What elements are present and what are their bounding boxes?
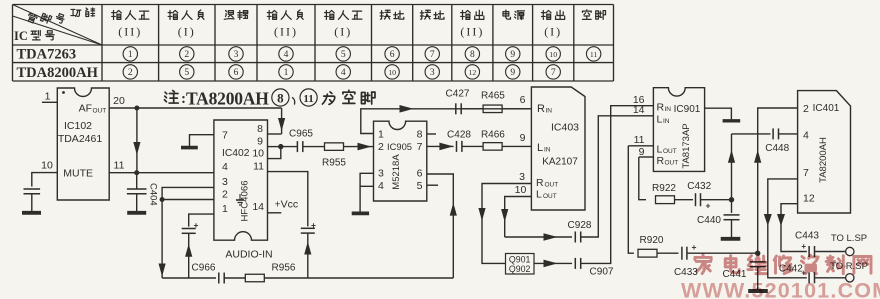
svg-text:TDA8200AH: TDA8200AH <box>17 65 99 81</box>
capacitor C907 <box>574 258 576 269</box>
svg-text:TO L.SP: TO L.SP <box>831 233 867 244</box>
table column headers <box>112 10 122 19</box>
svg-text:TDA2461: TDA2461 <box>58 133 103 145</box>
svg-text:7: 7 <box>417 141 423 153</box>
svg-text:5: 5 <box>341 50 346 60</box>
IC905 M5218A <box>374 121 427 201</box>
svg-text:IN: IN <box>544 147 551 154</box>
svg-text:11: 11 <box>590 50 598 59</box>
svg-text:R956: R956 <box>272 263 296 274</box>
svg-text:C440: C440 <box>697 215 721 226</box>
capacitor (pin10) <box>24 188 41 190</box>
svg-text:+Vcc: +Vcc <box>275 199 299 211</box>
node C432 junction <box>729 197 734 202</box>
svg-text:L: L <box>657 114 663 126</box>
svg-text:WWW.520101.COM: WWW.520101.COM <box>681 279 880 299</box>
svg-text:1: 1 <box>284 68 289 78</box>
svg-text:C427: C427 <box>446 89 470 100</box>
svg-text:6: 6 <box>417 167 423 179</box>
ground <box>22 211 41 215</box>
svg-text:4: 4 <box>222 161 228 173</box>
svg-text:2: 2 <box>128 68 133 78</box>
svg-text:IC901: IC901 <box>674 104 701 115</box>
svg-text:8: 8 <box>470 50 475 60</box>
wire C928 up to IC901 pin14 <box>581 116 654 237</box>
svg-text:MUTE: MUTE <box>63 168 93 180</box>
svg-text:L: L <box>537 142 543 154</box>
IC102 TDA2461 <box>57 88 109 200</box>
svg-text:1: 1 <box>378 128 384 140</box>
svg-text:(I): (I) <box>178 25 196 39</box>
pin 5 stub <box>427 184 438 186</box>
svg-text:R: R <box>537 103 545 115</box>
wire pin9 down to R922 <box>639 157 646 200</box>
svg-text:AF: AF <box>79 103 92 115</box>
small ground glyph inside IC402 <box>239 194 241 200</box>
svg-text:8: 8 <box>257 123 263 135</box>
svg-text:R955: R955 <box>322 158 346 169</box>
svg-text:14: 14 <box>252 201 264 213</box>
ground (C404) <box>127 211 146 215</box>
pin 12 wire to L.SP <box>781 204 807 252</box>
svg-text:IC905: IC905 <box>387 141 412 152</box>
svg-text:2: 2 <box>378 141 384 153</box>
svg-text:14: 14 <box>633 104 645 116</box>
capacitor C928 <box>574 232 576 243</box>
svg-text:8: 8 <box>277 90 284 105</box>
svg-text:11: 11 <box>114 160 125 172</box>
svg-text:C404: C404 <box>148 183 159 206</box>
capacitor C432 <box>695 193 697 206</box>
svg-text:12: 12 <box>803 193 815 205</box>
pin 1 wire + electrolytic cap <box>189 214 214 227</box>
pin 8 stub <box>427 133 436 135</box>
svg-text:AUDIO-IN: AUDIO-IN <box>225 249 272 261</box>
svg-text:+: + <box>692 242 697 252</box>
bottom feedback rail <box>162 277 216 279</box>
svg-text:TA8200AH: TA8200AH <box>186 89 269 109</box>
svg-text:7: 7 <box>222 130 228 142</box>
svg-text:4: 4 <box>378 180 384 192</box>
wire AF junction down to mute line, flow arrow <box>136 108 138 173</box>
svg-text:10: 10 <box>388 68 396 77</box>
wire pin2 riser <box>758 108 798 253</box>
svg-text:C966: C966 <box>192 263 216 274</box>
svg-text:OUT: OUT <box>543 193 557 200</box>
svg-text:3: 3 <box>519 171 525 183</box>
svg-text:2: 2 <box>222 189 228 201</box>
svg-text:C928: C928 <box>568 220 592 231</box>
svg-text:10: 10 <box>549 50 557 59</box>
pin 10 wire <box>268 147 281 159</box>
pin 9 wire + node <box>268 146 281 148</box>
svg-text:R922: R922 <box>652 183 676 194</box>
capacitor C427 <box>455 103 457 114</box>
IC402 HFC4066 <box>214 120 268 240</box>
speaker terminal L <box>846 247 854 255</box>
IC403 KA2107 <box>531 87 585 210</box>
IC401 TA8200AH <box>798 91 851 213</box>
IC901 right ground pin <box>705 108 732 119</box>
svg-text:TA8173AP: TA8173AP <box>681 123 692 168</box>
svg-text:L: L <box>536 189 542 201</box>
svg-text:OUT: OUT <box>665 160 679 167</box>
svg-text:IN: IN <box>663 118 670 125</box>
pin 1 wire up to C427 line <box>361 109 532 134</box>
svg-text:6: 6 <box>390 50 395 60</box>
svg-text:R: R <box>536 177 544 189</box>
svg-text:IC401: IC401 <box>813 103 840 114</box>
IC901 TA8173AP <box>653 88 704 172</box>
note: TA8200AH pins 8,11 unused <box>164 91 178 104</box>
svg-text:6: 6 <box>234 68 239 78</box>
pin 2 wire <box>162 199 214 201</box>
svg-text:R466: R466 <box>481 130 505 141</box>
wire riser to C448 line <box>731 134 733 213</box>
svg-text:(II): (II) <box>460 25 484 39</box>
wire Q box to C907 <box>534 262 572 264</box>
resistor R955 <box>325 143 344 151</box>
svg-text:KA2107: KA2107 <box>542 157 578 168</box>
svg-text:+: + <box>706 201 711 211</box>
svg-text:R: R <box>657 102 665 114</box>
svg-text:9: 9 <box>520 132 526 144</box>
wire R955 to IC905 pin2 with arrow <box>344 146 374 148</box>
svg-text:(II): (II) <box>274 25 298 39</box>
capacitor C448 <box>772 128 774 139</box>
svg-text:3: 3 <box>378 167 384 179</box>
resistor R956 <box>245 274 264 282</box>
svg-text:OUT: OUT <box>545 182 559 189</box>
capacitor C404 <box>136 173 138 189</box>
pin 6 wire down to bottom rail <box>427 174 454 278</box>
svg-text:C448: C448 <box>765 143 789 154</box>
svg-text:OUT: OUT <box>93 108 107 115</box>
svg-text:8: 8 <box>417 128 423 140</box>
svg-text:10: 10 <box>252 148 264 160</box>
svg-text:7: 7 <box>430 50 435 60</box>
node C433 junction <box>755 251 760 256</box>
pin 7 wire to ground <box>190 135 214 146</box>
wire C448 line <box>732 133 771 135</box>
svg-text:IC102: IC102 <box>64 120 92 132</box>
wire MUTE to IC402 pin4 <box>137 172 214 174</box>
wire AF line down to IC402 pin 8 with arrow <box>281 108 283 134</box>
svg-text:4: 4 <box>284 50 289 60</box>
svg-text:9: 9 <box>510 68 515 78</box>
pin 10 wire + cap + ground <box>32 173 58 187</box>
pin-function table frame <box>13 5 614 82</box>
svg-text:HFC4066: HFC4066 <box>240 180 251 221</box>
pin 1 stub <box>42 101 57 103</box>
svg-text:5: 5 <box>417 180 423 192</box>
svg-text:(I): (I) <box>544 25 562 39</box>
svg-text:9: 9 <box>639 146 645 158</box>
svg-text:C432: C432 <box>687 181 711 192</box>
pin 8 wire <box>268 133 282 135</box>
svg-text:20: 20 <box>113 95 125 107</box>
svg-text:C428: C428 <box>447 130 471 141</box>
capacitor C441 + ground <box>750 261 766 263</box>
svg-text:IN: IN <box>665 106 672 113</box>
capacitor C442 <box>808 272 810 283</box>
svg-text:IC: IC <box>14 29 28 43</box>
Q901/Q902 box <box>506 254 535 275</box>
svg-text:7: 7 <box>803 167 809 179</box>
table header diagonal cell <box>13 5 103 46</box>
capacitor C428 <box>456 141 458 152</box>
capacitor C433 <box>681 247 683 260</box>
pin 3/4 wires to ground <box>360 173 373 186</box>
resistor R920 <box>638 249 657 257</box>
svg-text:1: 1 <box>45 91 51 103</box>
pin 3 wire <box>162 187 214 199</box>
wire down-left feedback riser with arrow <box>161 200 163 279</box>
svg-text:9: 9 <box>510 50 515 60</box>
capacitor C443 <box>808 246 810 257</box>
capacitor C440 + ground <box>724 214 740 216</box>
svg-text:10: 10 <box>41 160 53 172</box>
svg-text:R920: R920 <box>640 235 664 246</box>
svg-text:R: R <box>657 155 665 167</box>
svg-text:6: 6 <box>520 94 526 106</box>
svg-text:5: 5 <box>184 68 189 78</box>
svg-text:Q902: Q902 <box>509 264 531 274</box>
svg-text:3: 3 <box>234 50 239 60</box>
svg-text:TDA7263: TDA7263 <box>17 47 77 63</box>
svg-text:2: 2 <box>184 50 189 60</box>
svg-text:+: + <box>801 242 806 251</box>
svg-text:(I): (I) <box>334 25 352 39</box>
resistor R466 <box>483 143 502 151</box>
svg-text:9: 9 <box>257 136 263 148</box>
svg-text:11: 11 <box>303 93 313 105</box>
svg-text:TA8200AH: TA8200AH <box>818 137 829 183</box>
svg-text:1: 1 <box>222 203 228 215</box>
svg-text:11: 11 <box>253 161 264 173</box>
svg-text:M5218A: M5218A <box>391 154 402 190</box>
resistor R465 <box>483 105 502 113</box>
svg-text:IC402: IC402 <box>222 148 250 159</box>
svg-text:Q901: Q901 <box>509 254 531 264</box>
svg-text:10: 10 <box>515 184 527 196</box>
svg-text:C443: C443 <box>795 231 819 242</box>
svg-text:3: 3 <box>222 176 228 188</box>
svg-text:4: 4 <box>803 130 809 142</box>
pin 14 +Vcc stub <box>268 212 282 214</box>
svg-text:C965: C965 <box>289 129 313 140</box>
svg-text:2: 2 <box>803 103 809 115</box>
svg-text:IC403: IC403 <box>551 122 579 134</box>
red watermark <box>681 255 880 299</box>
pin 20 AF out wire <box>109 107 281 109</box>
resistor R922 <box>656 196 675 204</box>
pin 11 MUTE wire <box>109 172 137 174</box>
svg-text:12: 12 <box>468 68 476 77</box>
svg-text:C907: C907 <box>590 267 614 278</box>
svg-text:IN: IN <box>546 107 553 114</box>
capacitor C966 <box>218 273 220 284</box>
svg-text:L: L <box>657 143 663 155</box>
node pins2/3 junction <box>160 197 165 202</box>
svg-text:1: 1 <box>128 50 133 60</box>
speaker terminal R <box>846 274 854 282</box>
svg-text:C433: C433 <box>674 267 698 278</box>
node AF junction <box>134 106 139 111</box>
svg-text:7: 7 <box>551 68 556 78</box>
svg-text:4: 4 <box>341 68 346 78</box>
svg-text:3: 3 <box>430 68 435 78</box>
wire pin10 line through C928 <box>505 236 572 238</box>
svg-text:OUT: OUT <box>663 148 677 155</box>
wire pin11 down to R920 <box>628 146 634 253</box>
svg-text:(II): (II) <box>118 25 142 39</box>
capacitor C965 <box>281 146 298 148</box>
svg-text:R465: R465 <box>481 91 505 102</box>
pin 7 wire to R.SP <box>768 179 807 278</box>
pin 11 wire + electrolytic to bottom rail <box>268 172 308 227</box>
pin 7 wire + arrow <box>427 145 454 147</box>
svg-text:11: 11 <box>634 134 645 146</box>
wire C907 up to IC901 pin16 <box>581 106 654 264</box>
node MUTE junction <box>134 170 139 175</box>
